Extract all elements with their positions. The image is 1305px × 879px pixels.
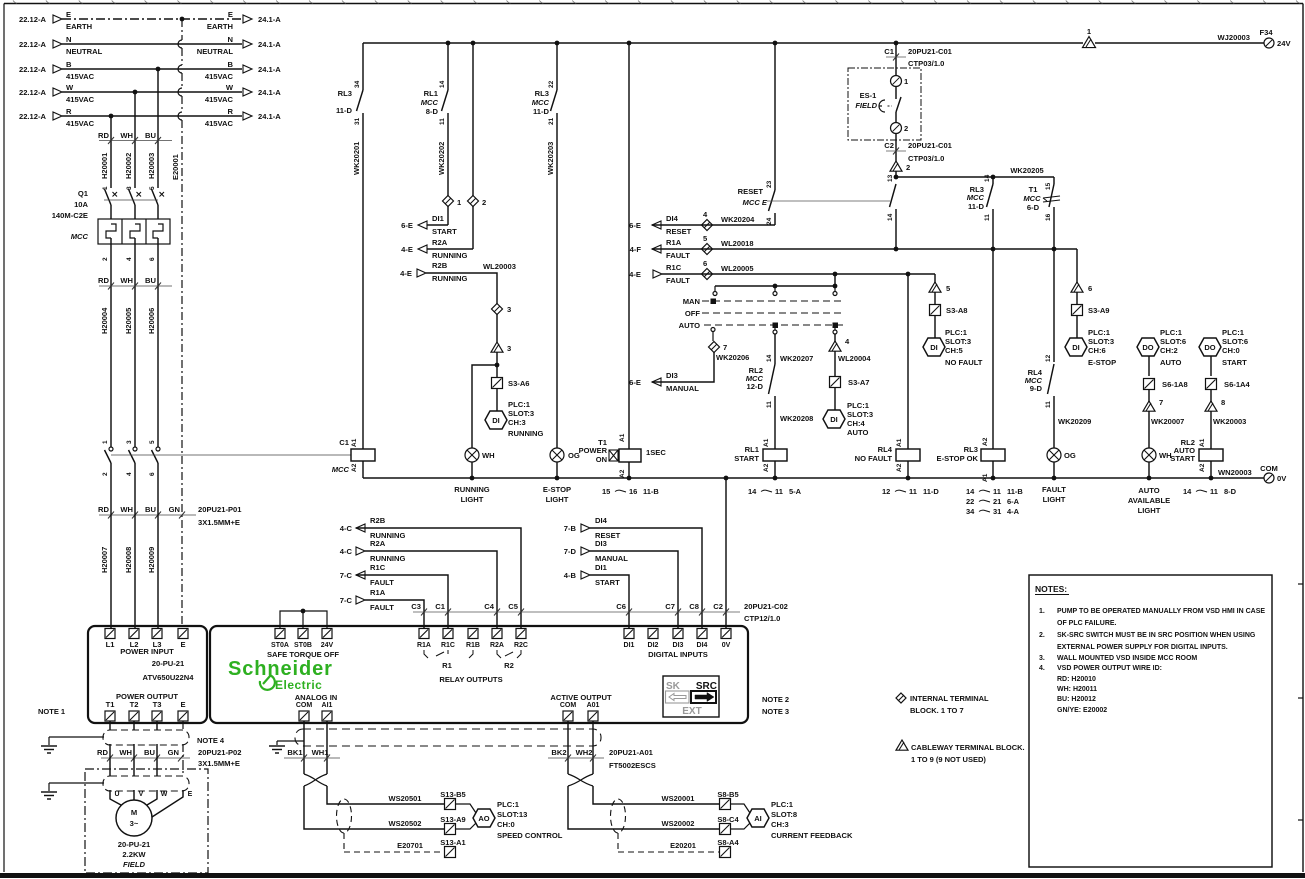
svg-text:3X1.5MM+E: 3X1.5MM+E	[198, 518, 240, 527]
svg-text:21: 21	[548, 117, 555, 125]
svg-text:PLC:1: PLC:1	[1222, 328, 1245, 337]
svg-text:MCC: MCC	[71, 232, 89, 241]
svg-text:VSD POWER OUTPUT WIRE ID:: VSD POWER OUTPUT WIRE ID:	[1057, 665, 1162, 672]
svg-text:7-C: 7-C	[340, 596, 353, 605]
svg-text:11-D: 11-D	[968, 202, 985, 211]
svg-text:24.1-A: 24.1-A	[258, 88, 281, 97]
svg-text:A1: A1	[1199, 438, 1206, 447]
svg-text:R2A: R2A	[432, 238, 448, 247]
svg-text:PLC:1: PLC:1	[945, 328, 968, 337]
svg-text:B: B	[228, 60, 234, 69]
svg-text:11: 11	[993, 487, 1001, 496]
svg-text:4: 4	[126, 472, 133, 476]
svg-text:14: 14	[887, 213, 894, 221]
svg-text:12: 12	[882, 487, 890, 496]
svg-text:20-PU-21: 20-PU-21	[118, 840, 151, 849]
svg-text:A01: A01	[587, 702, 600, 709]
svg-text:34: 34	[354, 80, 361, 88]
svg-text:140M-C2E: 140M-C2E	[52, 211, 88, 220]
svg-text:A2: A2	[896, 463, 903, 472]
svg-text:24: 24	[766, 217, 773, 225]
svg-text:WK20208: WK20208	[780, 414, 813, 423]
svg-text:PLC:1: PLC:1	[1160, 328, 1183, 337]
svg-text:6: 6	[149, 257, 156, 261]
svg-text:NOTE 3: NOTE 3	[762, 707, 789, 716]
svg-text:RD: RD	[98, 505, 109, 514]
svg-text:AO: AO	[478, 814, 489, 823]
svg-text:NEUTRAL: NEUTRAL	[197, 47, 234, 56]
svg-text:OF PLC FAILURE.: OF PLC FAILURE.	[1057, 620, 1117, 627]
svg-text:PLC:1: PLC:1	[847, 401, 870, 410]
svg-text:6-A: 6-A	[1007, 497, 1020, 506]
svg-text:WH: WH	[119, 748, 132, 757]
svg-text:COM: COM	[296, 702, 313, 709]
svg-text:CURRENT FEEDBACK: CURRENT FEEDBACK	[771, 831, 853, 840]
svg-text:CTP03/1.0: CTP03/1.0	[908, 59, 944, 68]
svg-text:14: 14	[1183, 487, 1192, 496]
svg-text:5: 5	[149, 186, 156, 190]
svg-text:RD: RD	[98, 276, 109, 285]
svg-text:E-STOP: E-STOP	[1088, 358, 1116, 367]
svg-text:BK1: BK1	[287, 748, 303, 757]
svg-text:22.12-A: 22.12-A	[19, 88, 47, 97]
svg-text:FT5002ESCS: FT5002ESCS	[609, 761, 656, 770]
svg-text:MANUAL: MANUAL	[595, 554, 628, 563]
svg-text:S3-A6: S3-A6	[508, 379, 530, 388]
svg-text:PLC:1: PLC:1	[508, 400, 531, 409]
svg-text:LIGHT: LIGHT	[461, 495, 484, 504]
svg-text:DI: DI	[930, 343, 938, 352]
svg-text:AI1: AI1	[322, 702, 333, 709]
svg-text:14: 14	[748, 487, 757, 496]
svg-text:6-E: 6-E	[629, 378, 641, 387]
svg-text:RL3: RL3	[964, 445, 978, 454]
svg-text:RD: H20010: RD: H20010	[1057, 676, 1096, 683]
svg-text:START: START	[1170, 454, 1195, 463]
svg-text:S3-A7: S3-A7	[848, 378, 870, 387]
svg-text:E20701: E20701	[397, 841, 423, 850]
svg-text:CH:2: CH:2	[1160, 346, 1178, 355]
svg-text:CH:0: CH:0	[1222, 346, 1240, 355]
svg-text:7-D: 7-D	[564, 547, 577, 556]
svg-text:3X1.5MM+E: 3X1.5MM+E	[198, 759, 240, 768]
svg-text:ON: ON	[596, 455, 607, 464]
svg-text:L1: L1	[106, 640, 116, 649]
svg-text:DI4: DI4	[666, 214, 679, 223]
svg-text:3~: 3~	[130, 819, 139, 828]
svg-text:ACTIVE OUTPUT: ACTIVE OUTPUT	[550, 693, 612, 702]
svg-text:RL3: RL3	[338, 89, 352, 98]
svg-text:SLOT:8: SLOT:8	[771, 810, 797, 819]
svg-text:C3: C3	[411, 602, 421, 611]
svg-text:W: W	[161, 791, 168, 798]
svg-text:4.: 4.	[1039, 665, 1045, 672]
svg-text:R2: R2	[504, 661, 514, 670]
svg-text:24.1-A: 24.1-A	[258, 112, 281, 121]
svg-text:R2C: R2C	[514, 642, 528, 649]
svg-text:RD: RD	[98, 131, 109, 140]
svg-text:WH: WH	[120, 131, 133, 140]
svg-text:RL1: RL1	[745, 445, 760, 454]
svg-text:WS20001: WS20001	[662, 794, 695, 803]
svg-text:EARTH: EARTH	[207, 22, 233, 31]
svg-text:23: 23	[766, 180, 773, 188]
svg-text:N: N	[228, 35, 233, 44]
svg-text:4-E: 4-E	[400, 269, 412, 278]
svg-text:EXTERNAL POWER SUPPLY FOR DIGI: EXTERNAL POWER SUPPLY FOR DIGITAL INPUTS…	[1057, 644, 1228, 651]
svg-text:22.12-A: 22.12-A	[19, 15, 47, 24]
svg-text:DI1: DI1	[432, 214, 445, 223]
svg-text:PLC:1: PLC:1	[771, 800, 794, 809]
svg-text:15: 15	[602, 487, 610, 496]
svg-text:3: 3	[126, 186, 133, 190]
svg-text:WK20205: WK20205	[1010, 166, 1043, 175]
svg-text:11: 11	[775, 487, 783, 496]
svg-text:WK20207: WK20207	[780, 354, 813, 363]
svg-text:R: R	[66, 107, 72, 116]
svg-text:DIGITAL INPUTS: DIGITAL INPUTS	[648, 650, 708, 659]
svg-text:24.1-A: 24.1-A	[258, 40, 281, 49]
svg-text:DI3: DI3	[666, 371, 678, 380]
svg-text:H20009: H20009	[147, 547, 156, 573]
svg-text:WH: H20011: WH: H20011	[1057, 686, 1097, 693]
svg-text:S8-B5: S8-B5	[717, 790, 738, 799]
svg-text:H20001: H20001	[100, 153, 109, 179]
svg-text:A1: A1	[896, 438, 903, 447]
svg-text:CH:3: CH:3	[508, 418, 526, 427]
svg-text:2: 2	[102, 257, 109, 261]
svg-text:WS20501: WS20501	[389, 794, 422, 803]
svg-text:RUNNING: RUNNING	[370, 554, 406, 563]
svg-text:14: 14	[439, 80, 446, 88]
svg-text:4: 4	[126, 257, 133, 261]
svg-text:R1C: R1C	[441, 642, 455, 649]
svg-text:11: 11	[1045, 401, 1052, 408]
svg-text:3: 3	[126, 440, 133, 444]
svg-text:NOTE 1: NOTE 1	[38, 707, 65, 716]
svg-text:INTERNAL TERMINAL: INTERNAL TERMINAL	[910, 694, 989, 703]
svg-text:FIELD: FIELD	[855, 101, 877, 110]
svg-text:MCC: MCC	[532, 98, 550, 107]
svg-text:11: 11	[1210, 487, 1218, 496]
svg-text:BU: BU	[145, 276, 156, 285]
svg-text:R1A: R1A	[666, 238, 682, 247]
svg-text:LIGHT: LIGHT	[546, 495, 569, 504]
svg-text:H20008: H20008	[124, 547, 133, 573]
svg-text:WK20202: WK20202	[437, 142, 446, 175]
svg-text:C1: C1	[435, 602, 445, 611]
svg-text:T3: T3	[153, 700, 162, 709]
svg-text:PLC:1: PLC:1	[497, 800, 520, 809]
svg-text:DI: DI	[830, 415, 838, 424]
svg-text:WH: WH	[120, 276, 133, 285]
svg-text:C2: C2	[884, 141, 894, 150]
svg-text:SLOT:13: SLOT:13	[497, 810, 527, 819]
svg-text:C4: C4	[484, 602, 494, 611]
svg-text:C5: C5	[508, 602, 518, 611]
svg-text:GN: GN	[168, 748, 179, 757]
svg-text:15: 15	[1045, 182, 1052, 190]
svg-text:C1: C1	[884, 47, 894, 56]
svg-text:11-B: 11-B	[1007, 487, 1023, 496]
svg-text:M: M	[131, 808, 137, 817]
svg-text:E20001: E20001	[171, 154, 180, 180]
svg-text:CH:0: CH:0	[497, 820, 515, 829]
svg-text:R1C: R1C	[666, 263, 682, 272]
svg-text:ES-1: ES-1	[860, 91, 877, 100]
svg-text:WL20004: WL20004	[838, 354, 871, 363]
svg-text:ANALOG IN: ANALOG IN	[295, 693, 338, 702]
svg-text:CH:4: CH:4	[847, 419, 865, 428]
svg-text:ST0B: ST0B	[294, 642, 312, 649]
svg-text:WL20005: WL20005	[721, 264, 754, 273]
svg-text:NOTES:: NOTES:	[1035, 584, 1067, 594]
svg-text:22.12-A: 22.12-A	[19, 65, 47, 74]
svg-text:SLOT:6: SLOT:6	[1160, 337, 1186, 346]
svg-text:5: 5	[149, 440, 156, 444]
svg-text:RUNNING: RUNNING	[454, 485, 490, 494]
svg-text:3: 3	[507, 305, 511, 314]
svg-text:A2: A2	[351, 463, 358, 472]
svg-text:DI2: DI2	[648, 642, 659, 649]
svg-text:11: 11	[909, 487, 917, 496]
svg-text:DI3: DI3	[595, 539, 607, 548]
svg-text:BK2: BK2	[551, 748, 566, 757]
svg-text:11-D: 11-D	[336, 106, 353, 115]
svg-text:E: E	[180, 700, 185, 709]
svg-text:MCC: MCC	[421, 98, 439, 107]
svg-text:WK20007: WK20007	[1151, 417, 1184, 426]
svg-text:C8: C8	[689, 602, 699, 611]
svg-text:ATV650U22N4: ATV650U22N4	[143, 673, 195, 682]
svg-text:B: B	[66, 60, 72, 69]
svg-text:C6: C6	[616, 602, 626, 611]
svg-text:4-F: 4-F	[630, 245, 642, 254]
svg-text:2: 2	[482, 198, 486, 207]
svg-text:RUNNING: RUNNING	[508, 429, 544, 438]
svg-text:7: 7	[723, 343, 727, 352]
svg-text:H20006: H20006	[147, 308, 156, 334]
svg-text:E: E	[228, 10, 233, 19]
svg-text:WL20018: WL20018	[721, 239, 754, 248]
svg-text:31: 31	[354, 117, 361, 125]
svg-text:RUNNING: RUNNING	[432, 274, 468, 283]
svg-text:S3-A9: S3-A9	[1088, 306, 1110, 315]
svg-text:20PU21-A01: 20PU21-A01	[609, 748, 654, 757]
svg-text:AVAILABLE: AVAILABLE	[1128, 496, 1170, 505]
svg-text:R2B: R2B	[370, 516, 386, 525]
svg-text:OG: OG	[1064, 451, 1076, 460]
svg-text:T2: T2	[130, 700, 139, 709]
svg-text:E: E	[180, 640, 185, 649]
svg-text:4-C: 4-C	[340, 524, 353, 533]
svg-text:W: W	[226, 83, 234, 92]
svg-text:W: W	[66, 83, 74, 92]
svg-text:START: START	[432, 227, 457, 236]
svg-text:RUNNING: RUNNING	[432, 251, 468, 260]
svg-text:START: START	[595, 578, 620, 587]
svg-text:S13-A1: S13-A1	[440, 838, 465, 847]
svg-text:4-E: 4-E	[629, 270, 641, 279]
svg-text:12: 12	[1045, 354, 1052, 362]
svg-text:S8-A4: S8-A4	[717, 838, 739, 847]
svg-text:WK20203: WK20203	[546, 142, 555, 175]
svg-text:A1: A1	[763, 438, 770, 447]
svg-text:6-E: 6-E	[401, 221, 413, 230]
svg-text:WL20003: WL20003	[483, 262, 516, 271]
svg-text:MANUAL: MANUAL	[666, 384, 699, 393]
svg-text:A1: A1	[619, 433, 626, 442]
svg-text:11: 11	[766, 401, 773, 408]
svg-text:DO: DO	[1204, 343, 1215, 352]
svg-text:6: 6	[149, 472, 156, 476]
svg-text:16: 16	[1045, 213, 1052, 221]
svg-text:F34: F34	[1259, 28, 1273, 37]
svg-text:415VAC: 415VAC	[205, 72, 234, 81]
svg-text:8: 8	[1221, 398, 1225, 407]
svg-text:5-A: 5-A	[789, 487, 802, 496]
svg-text:BU: H20012: BU: H20012	[1057, 696, 1096, 703]
svg-text:AUTO: AUTO	[679, 321, 700, 330]
svg-text:START: START	[734, 454, 759, 463]
svg-text:H20005: H20005	[124, 308, 133, 334]
svg-text:MCC: MCC	[1023, 194, 1041, 203]
svg-text:N: N	[66, 35, 71, 44]
svg-text:415VAC: 415VAC	[66, 95, 95, 104]
svg-text:AUTO: AUTO	[847, 428, 868, 437]
svg-text:WK20201: WK20201	[352, 142, 361, 175]
svg-text:T1: T1	[1029, 185, 1039, 194]
svg-text:CTP03/1.0: CTP03/1.0	[908, 154, 944, 163]
svg-text:20PU21-C02: 20PU21-C02	[744, 602, 788, 611]
svg-text:2.2KW: 2.2KW	[122, 850, 146, 859]
svg-text:WH2: WH2	[576, 748, 593, 757]
svg-text:WK20206: WK20206	[716, 353, 749, 362]
svg-text:BLOCK. 1 TO 7: BLOCK. 1 TO 7	[910, 706, 964, 715]
svg-text:8-D: 8-D	[426, 107, 439, 116]
svg-text:H20003: H20003	[147, 153, 156, 179]
svg-text:1 TO 9 (9 NOT USED): 1 TO 9 (9 NOT USED)	[911, 755, 986, 764]
svg-text:14: 14	[966, 487, 975, 496]
svg-text:20-PU-21: 20-PU-21	[152, 659, 185, 668]
svg-text:4-E: 4-E	[401, 245, 413, 254]
svg-text:7-B: 7-B	[564, 524, 577, 533]
svg-text:7-C: 7-C	[340, 571, 353, 580]
svg-text:CTP12/1.0: CTP12/1.0	[744, 614, 780, 623]
svg-text:POWER: POWER	[579, 446, 608, 455]
svg-text:11-D: 11-D	[923, 487, 939, 496]
svg-text:6-D: 6-D	[1027, 203, 1040, 212]
svg-text:E-STOP: E-STOP	[543, 485, 571, 494]
svg-text:S6-1A4: S6-1A4	[1224, 380, 1251, 389]
svg-text:16: 16	[629, 487, 637, 496]
svg-text:CABLEWAY TERMINAL BLOCK.: CABLEWAY TERMINAL BLOCK.	[911, 743, 1025, 752]
svg-text:U: U	[114, 791, 119, 798]
svg-text:SK: SK	[666, 681, 681, 692]
svg-text:14: 14	[984, 174, 991, 182]
svg-text:NO FAULT: NO FAULT	[945, 358, 983, 367]
svg-text:PUMP TO BE OPERATED MANUALLY F: PUMP TO BE OPERATED MANUALLY FROM VSD HM…	[1057, 608, 1265, 615]
svg-text:FAULT: FAULT	[370, 603, 394, 612]
svg-text:1.: 1.	[1039, 608, 1045, 615]
svg-text:24.1-A: 24.1-A	[258, 15, 281, 24]
svg-text:H20007: H20007	[100, 547, 109, 573]
svg-text:DI1: DI1	[624, 642, 635, 649]
svg-text:4-B: 4-B	[564, 571, 577, 580]
svg-text:31: 31	[993, 507, 1001, 516]
svg-text:0V: 0V	[722, 642, 731, 649]
svg-text:COM: COM	[1260, 464, 1278, 473]
svg-text:R1A: R1A	[370, 588, 386, 597]
svg-text:13: 13	[887, 174, 894, 182]
svg-text:SLOT:6: SLOT:6	[1222, 337, 1248, 346]
svg-text:DI4: DI4	[595, 516, 608, 525]
svg-text:WH1: WH1	[312, 748, 330, 757]
svg-text:6-E: 6-E	[629, 221, 641, 230]
svg-text:RL3: RL3	[535, 89, 549, 98]
svg-text:FIELD: FIELD	[123, 860, 145, 869]
svg-text:21: 21	[993, 497, 1001, 506]
svg-text:FAULT: FAULT	[1042, 485, 1066, 494]
svg-text:GN: GN	[169, 505, 180, 514]
svg-text:2: 2	[102, 472, 109, 476]
svg-text:WH: WH	[482, 451, 495, 460]
svg-text:415VAC: 415VAC	[66, 119, 95, 128]
svg-text:415VAC: 415VAC	[205, 95, 234, 104]
svg-text:RL4: RL4	[878, 445, 893, 454]
svg-text:Schneider: Schneider	[228, 658, 333, 680]
svg-text:9-D: 9-D	[1030, 384, 1043, 393]
svg-text:S6-1A8: S6-1A8	[1162, 380, 1188, 389]
svg-text:NEUTRAL: NEUTRAL	[66, 47, 103, 56]
svg-text:14: 14	[766, 354, 773, 362]
svg-text:R1B: R1B	[466, 642, 480, 649]
svg-text:C2: C2	[713, 602, 723, 611]
svg-text:WS20502: WS20502	[389, 819, 422, 828]
svg-text:WH: WH	[120, 505, 133, 514]
svg-text:22.12-A: 22.12-A	[19, 112, 47, 121]
svg-text:R1C: R1C	[370, 563, 386, 572]
svg-text:CH:6: CH:6	[1088, 346, 1106, 355]
svg-text:RD: RD	[97, 748, 108, 757]
svg-text:POWER OUTPUT: POWER OUTPUT	[116, 692, 178, 701]
svg-text:6: 6	[1088, 284, 1092, 293]
svg-text:EXT: EXT	[682, 706, 701, 717]
svg-text:8-D: 8-D	[1224, 487, 1237, 496]
svg-text:2.: 2.	[1039, 632, 1045, 639]
svg-text:A2: A2	[1199, 463, 1206, 472]
svg-text:DI: DI	[492, 416, 500, 425]
svg-text:BU: BU	[144, 748, 155, 757]
svg-text:Q1: Q1	[78, 189, 89, 198]
svg-text:1: 1	[102, 186, 109, 190]
svg-text:NOTE 4: NOTE 4	[197, 736, 225, 745]
svg-text:NOTE 2: NOTE 2	[762, 695, 789, 704]
svg-text:S3-A8: S3-A8	[946, 306, 968, 315]
svg-text:RESET: RESET	[666, 227, 692, 236]
svg-text:20PU21-P02: 20PU21-P02	[198, 748, 241, 757]
svg-text:S13-A9: S13-A9	[440, 815, 465, 824]
svg-text:SLOT:3: SLOT:3	[508, 409, 534, 418]
svg-text:MCC E: MCC E	[743, 198, 768, 207]
svg-text:DI4: DI4	[697, 642, 708, 649]
svg-text:SLOT:3: SLOT:3	[945, 337, 971, 346]
svg-text:A1: A1	[982, 473, 989, 482]
svg-text:DI3: DI3	[673, 642, 684, 649]
svg-text:11-D: 11-D	[533, 107, 550, 116]
svg-text:GN/YE: E20002: GN/YE: E20002	[1057, 707, 1107, 714]
svg-text:RL1: RL1	[424, 89, 439, 98]
